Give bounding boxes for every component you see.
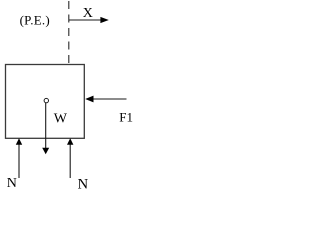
svg-text:N: N <box>7 176 17 191</box>
weight arrow W <box>42 103 49 154</box>
svg-text:X: X <box>83 6 93 21</box>
dashed reference line <box>68 1 70 64</box>
X-axis arrow <box>69 17 109 23</box>
box (block) <box>6 65 85 139</box>
applied force arrow F1 <box>85 96 126 103</box>
center-of-gravity circle <box>44 98 48 102</box>
svg-text:W: W <box>54 112 68 127</box>
right normal force arrow N <box>67 138 73 178</box>
svg-text:F1: F1 <box>119 109 133 124</box>
left normal force arrow N <box>16 138 22 178</box>
svg-text:(P.E.): (P.E.) <box>20 12 50 27</box>
svg-text:N: N <box>78 176 89 192</box>
